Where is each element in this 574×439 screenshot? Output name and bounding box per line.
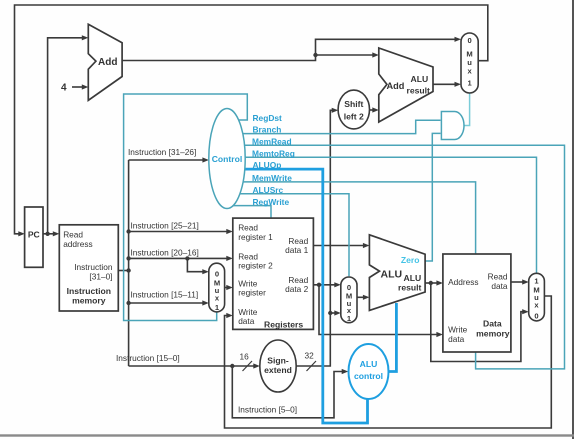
Registers box [233,218,314,329]
wire: instruction memory output to instruction bus [118,270,128,272]
Mux M3 PCSrc mux (top right) [461,33,478,93]
svg-text:address: address [63,239,93,249]
Data memory box [443,254,511,352]
svg-text:data 1: data 1 [285,245,308,255]
node: sign extend output junction [328,311,332,315]
Control unit oval [209,109,245,209]
svg-text:Instruction [15–11]: Instruction [15–11] [131,290,199,300]
svg-text:ALU: ALU [381,268,403,280]
node: 15-0 junction to 5-0 [230,364,234,368]
svg-text:Zero: Zero [401,255,420,265]
svg-text:Instruction [31–26]: Instruction [31–26] [128,147,196,157]
wire: PC to Add (PC+4) upper input [48,38,86,234]
wire: Zero flag from ALU to AND gate [425,133,440,261]
svg-text:0: 0 [534,312,538,321]
svg-text:MemWrite: MemWrite [252,173,292,183]
svg-text:RegWrite: RegWrite [253,197,290,207]
wire: ALUOp control signal (thick blue) to ALU control [245,169,368,423]
wire: PC+4 to branch Add upper input [316,54,377,56]
svg-text:memory: memory [72,295,106,305]
wire: ALU result to data memory Address [425,282,441,284]
wire: Instruction [5-0] to ALU control [232,366,345,418]
svg-text:data 2: data 2 [285,284,308,294]
wire: Instruction [20-16] to Read register 2 [129,257,231,259]
wire: RegWrite control signal to Registers [233,206,271,218]
node: 20-16 branch junction [185,256,189,260]
svg-text:Add: Add [387,81,405,91]
wire: MemtoReg control signal to Mux M4 select [245,157,537,272]
wire: branch Add result to Mux M3 input 1 [433,83,459,85]
wire: Instruction [15-11] to Mux M1 input 1 [129,302,207,304]
svg-text:[31–0]: [31–0] [89,271,112,281]
node: bus junction imem out [126,268,130,272]
svg-text:result: result [407,86,431,96]
wire: Read data 1 to ALU upper input [313,245,367,247]
wire: shift left 2 output to branch Add lower input [369,109,376,111]
wire: ALUSrc control signal to Mux M2 select [240,194,349,276]
svg-text:Add: Add [98,57,117,68]
wire: Instruction [20-16] branch to Mux M1 input 0 [187,258,206,271]
PC register box [25,207,43,267]
Shift left 2 oval [338,90,369,129]
wire: MemWrite control signal to data memory top [243,182,476,255]
svg-text:extend: extend [264,365,292,375]
wire: Branch control signal to AND gate [243,120,441,133]
wire: RegDst control signal (teal) [124,94,248,321]
svg-text:data: data [448,334,465,344]
svg-text:ALUSrc: ALUSrc [253,185,284,195]
wire: Instruction [15-0] to sign extend [129,365,258,367]
node: bus junction read reg1 [126,229,130,233]
svg-text:MemtoReg: MemtoReg [252,148,295,158]
wire: Read data 2 to data memory Write data [319,285,441,335]
svg-text:Instruction [15–0]: Instruction [15–0] [116,353,180,363]
svg-text:Address: Address [448,277,478,287]
wire: PC+4 from Add output right, up, to Mux M3 input 0 [122,39,459,60]
wire: memory Read data to Mux M4 input 1 [511,281,527,283]
svg-text:register: register [238,288,266,298]
frame: bottom border [0,434,574,436]
svg-text:Instruction: Instruction [67,286,111,296]
adder Add (PC+4) [88,24,122,100]
svg-text:Shift: Shift [344,99,363,109]
svg-text:Control: Control [212,154,243,164]
wire: Instruction [25-21] to Read register 1 [129,231,231,233]
wire: Mux M4 output writeback to registers Write data [225,296,552,428]
wire: ALU control output to ALU operation input (thick blue) [389,303,397,372]
wire: sign extend output up to shift left 2 [296,110,336,366]
node: PC output junction [45,232,49,236]
svg-text:Registers: Registers [264,320,303,330]
wire: sign extend output to Mux M2 input 1 [330,312,338,314]
svg-text:register 1: register 1 [238,232,273,242]
wire: Instruction [31-26] to Control [129,159,207,161]
wire: instruction bus vertical [128,160,130,366]
svg-text:PC: PC [28,230,40,240]
node: read data 2 junction [317,283,321,287]
svg-text:Data: Data [483,319,502,329]
svg-text:left 2: left 2 [344,112,364,122]
instruction memory box [59,225,118,311]
svg-text:control: control [354,371,383,381]
Mux M1 RegDst mux [209,263,225,312]
wire: MemRead control signal to data memory bottom [244,145,564,369]
svg-text:4: 4 [61,83,67,94]
svg-text:ALUOp: ALUOp [253,160,282,170]
wire: Mux M1 output to Write register [225,287,231,289]
wire: Read data 2 to Mux M2 input 0 [313,284,338,286]
svg-text:Instruction [25–21]: Instruction [25–21] [131,221,199,231]
branch adder Add ALU result [379,48,433,122]
svg-text:ALU: ALU [360,359,378,369]
svg-text:Instruction [20–16]: Instruction [20–16] [131,248,199,258]
node: bus junction read reg2 [126,256,130,260]
Mux M4 MemtoReg mux [529,273,545,321]
svg-text:register 2: register 2 [238,261,273,271]
svg-text:ALU: ALU [411,74,429,84]
svg-text:0: 0 [215,270,219,279]
svg-text:MemRead: MemRead [252,136,292,146]
wire: AND gate output to Mux M3 select (PCSrc) [464,92,470,126]
svg-text:data: data [238,316,255,326]
wire: ALU result around data memory to Mux M4 input 0 [431,283,527,362]
svg-text:memory: memory [476,328,510,338]
wire: PC feedback loop from Mux M3 output along top and left borders to PC [15,5,488,234]
wire: PC output to instruction memory read address [43,233,57,235]
svg-text:result: result [398,282,422,292]
node: ALU result junction [429,281,433,285]
Sign-extend oval [260,340,296,392]
frame: right border [572,0,574,439]
wire: Mux M2 output to ALU lower input [357,296,367,298]
node: PC+4 junction to branch adder [313,53,317,57]
svg-text:16: 16 [240,352,250,362]
Mux M2 ALUSrc mux [341,277,357,323]
AND gate (branch and zero) [441,112,464,140]
svg-text:RegDst: RegDst [253,113,283,123]
svg-text:32: 32 [305,351,315,361]
node: bus junction 15-11 [126,301,130,305]
svg-text:data: data [491,281,508,291]
ALU control oval [349,344,389,399]
svg-text:Branch: Branch [253,125,282,135]
svg-text:Instruction [5–0]: Instruction [5–0] [238,405,297,415]
svg-text:0: 0 [467,36,471,45]
main ALU [369,235,425,311]
